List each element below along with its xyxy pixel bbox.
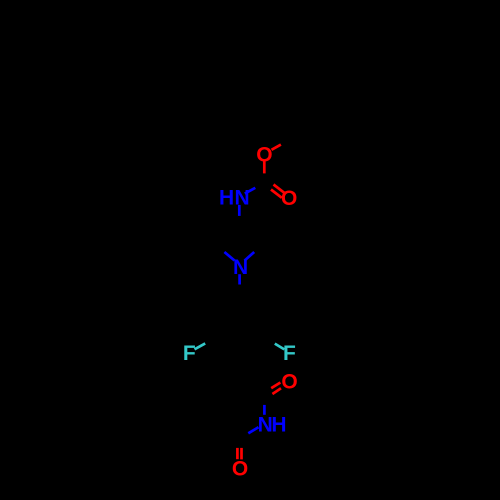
svg-text:O: O (232, 457, 248, 480)
svg-text:O: O (281, 187, 297, 210)
svg-text:F: F (283, 342, 296, 365)
svg-text:H: H (219, 186, 234, 209)
svg-text:N: N (235, 186, 250, 209)
svg-text:N: N (233, 256, 248, 279)
svg-text:F: F (183, 342, 196, 365)
svg-text:O: O (281, 370, 297, 393)
svg-text:H: H (271, 413, 286, 436)
svg-text:O: O (256, 143, 272, 166)
